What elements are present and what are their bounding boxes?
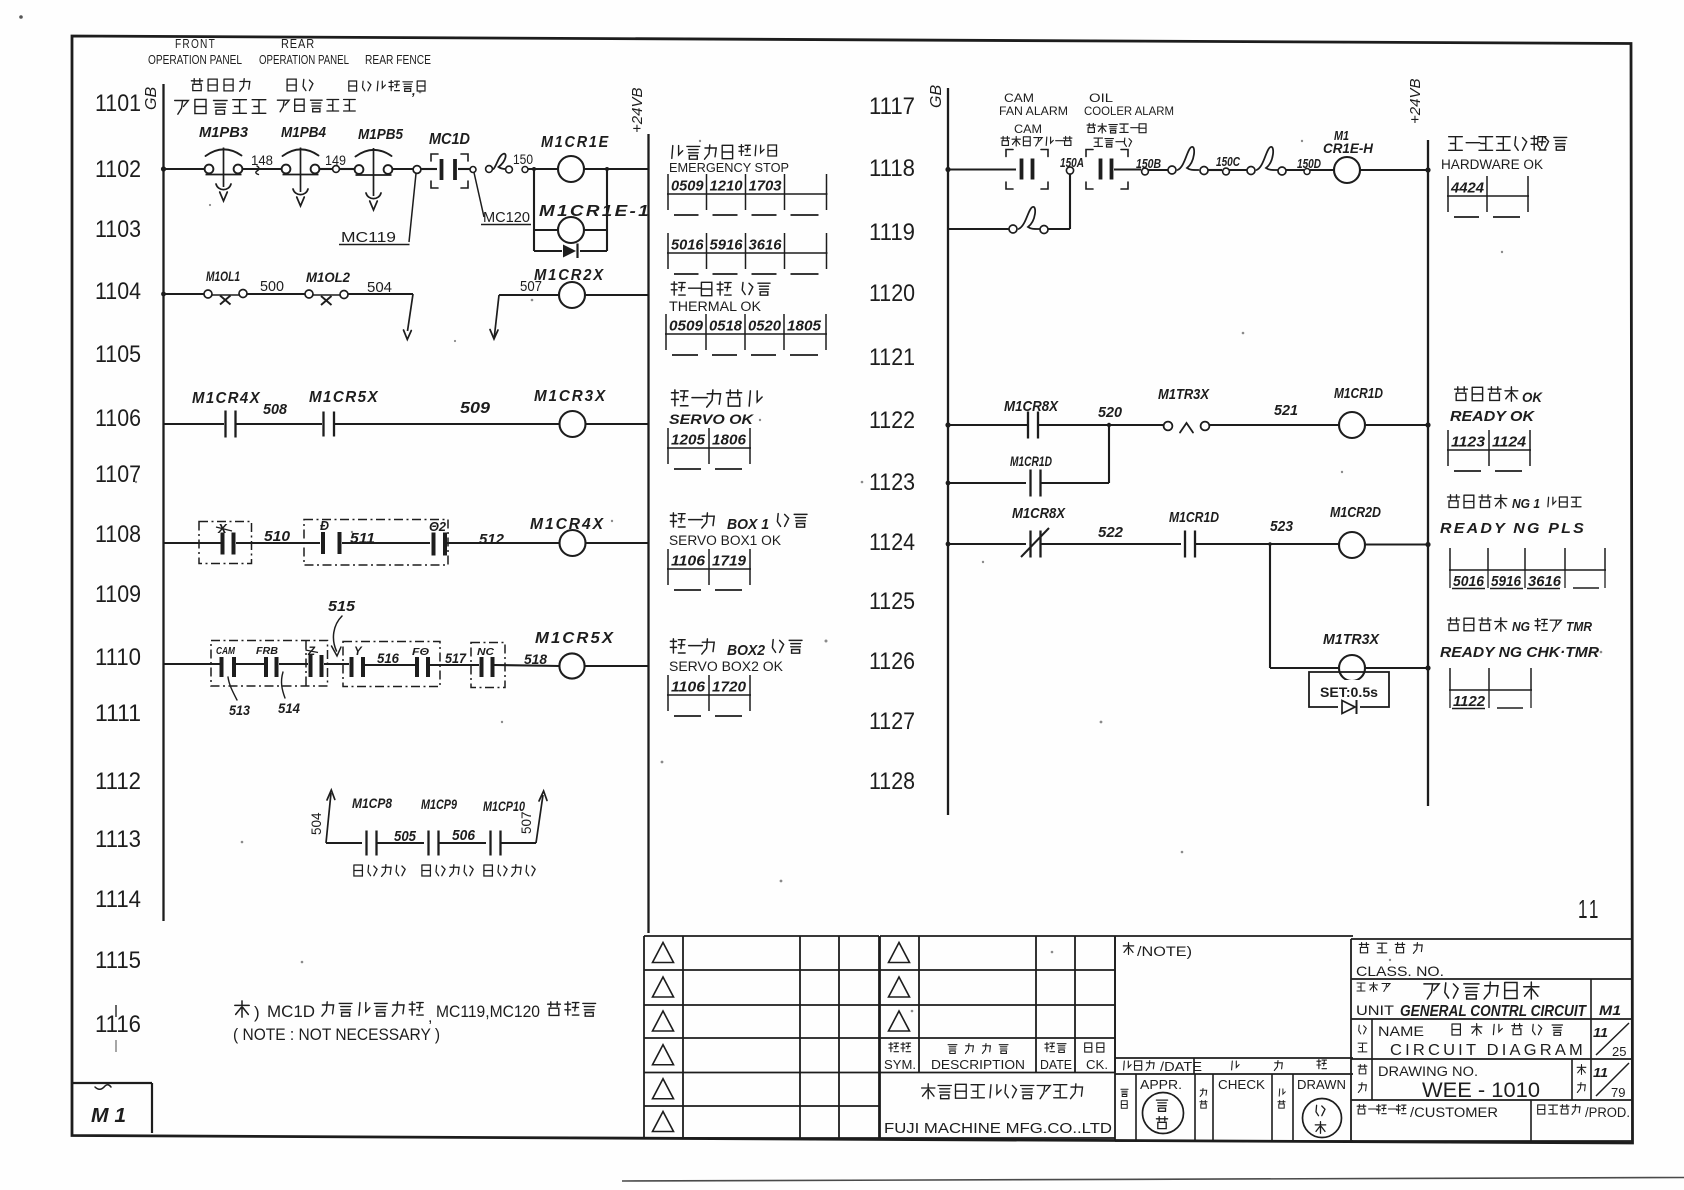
contact M1CP10 (489, 831, 491, 856)
wire rung1119 b (1048, 228, 1070, 230)
svg-text:BOX 1: BOX 1 (727, 516, 769, 533)
wire rung1110 a (164, 663, 221, 665)
name cell (1371, 1019, 1373, 1059)
note MC1D jumper JP (235, 1001, 249, 1017)
svg-text:0520: 0520 (748, 318, 782, 335)
node junction bus-1124 (946, 542, 951, 547)
wire rung1102 h (528, 168, 558, 170)
annotation hardware ok (1449, 137, 1463, 151)
company name JP (922, 1084, 935, 1099)
svg-text:CR1E-H: CR1E-H (1323, 141, 1373, 156)
contact M1CR8X NC (1029, 531, 1031, 558)
diode flyback loop (533, 230, 535, 251)
svg-text:,: , (428, 1009, 432, 1026)
diode timer (1338, 700, 1360, 714)
svg-text:1112: 1112 (95, 768, 141, 795)
servo box B enclosure (343, 642, 440, 687)
svg-text:M1CR1E-1: M1CR1E-1 (539, 203, 651, 220)
svg-text:1125: 1125 (869, 588, 915, 615)
svg-text:1115: 1115 (95, 947, 141, 974)
svg-text:/CUSTOMER: /CUSTOMER (1410, 1105, 1498, 1120)
svg-text:FAN ALARM: FAN ALARM (999, 104, 1068, 118)
svg-text:M1CR1D: M1CR1D (1010, 453, 1052, 469)
svg-text:150B: 150B (1136, 157, 1161, 171)
svg-text:1107: 1107 (95, 461, 141, 488)
svg-text:M1CR4X: M1CR4X (530, 516, 605, 533)
wire rung1118 g (1310, 169, 1334, 171)
svg-text:1123: 1123 (1451, 434, 1486, 451)
svg-text:1719: 1719 (712, 553, 747, 570)
wire rung1104 a (164, 293, 205, 295)
svg-text:509: 509 (460, 400, 490, 417)
wire rung1102 b (243, 168, 282, 170)
wire rung1119 (948, 228, 1009, 230)
svg-text:MC119: MC119 (341, 230, 396, 246)
svg-text:150C: 150C (1216, 155, 1241, 169)
svg-text:506: 506 (452, 828, 476, 844)
coil M1CR2X (559, 282, 585, 308)
coil M1CR1E-1 (558, 217, 584, 243)
svg-text:OPERATION PANEL: OPERATION PANEL (259, 53, 349, 67)
annotation ready ng chk tmr (1448, 618, 1460, 631)
wire rung1122 d (1365, 424, 1428, 426)
svg-text:1103: 1103 (95, 216, 141, 243)
svg-text:,: , (411, 83, 416, 98)
wire rung1123 b (1041, 482, 1110, 484)
svg-text:EMERGENCY STOP: EMERGENCY STOP (669, 160, 789, 175)
node MC120 terminal (470, 167, 476, 173)
svg-text:THERMAL OK: THERMAL OK (669, 299, 761, 314)
contact CAM FAN ALARM (1020, 159, 1024, 180)
svg-text:M1PB4: M1PB4 (281, 124, 327, 141)
coil M1CR5X (559, 653, 584, 678)
svg-text:Đ: Đ (320, 519, 329, 533)
zone label M1 (72, 1082, 152, 1084)
svg-text:1119: 1119 (869, 219, 915, 246)
svg-text:/DATE: /DATE (1160, 1060, 1202, 1074)
svg-text:1123: 1123 (869, 469, 915, 496)
svg-text:OIL: OIL (1089, 91, 1113, 105)
svg-text:520: 520 (1098, 404, 1123, 421)
svg-text:M1CR4X: M1CR4X (192, 390, 261, 407)
label aux contact JP 2 (422, 865, 431, 876)
label aux contact JP 3 (484, 865, 493, 876)
wire rung1126 b (1365, 667, 1428, 669)
svg-text:M1OL2: M1OL2 (306, 269, 350, 285)
coil M1CR2D (1339, 532, 1365, 558)
revision header CK (1085, 1043, 1092, 1052)
svg-text:M1CR1E: M1CR1E (541, 134, 610, 151)
svg-text:3616: 3616 (749, 237, 783, 254)
svg-text:1126: 1126 (869, 648, 915, 675)
net +24VB left bus (647, 134, 649, 933)
svg-text:1113: 1113 (95, 826, 141, 853)
svg-text:1116: 1116 (95, 1011, 141, 1038)
svg-text:0509: 0509 (669, 318, 704, 335)
svg-text:1703: 1703 (749, 178, 783, 195)
wire rung1118 b (1114, 168, 1141, 170)
svg-text:REAR: REAR (281, 37, 315, 51)
coil M1CR4X (560, 530, 586, 556)
svg-text:0518: 0518 (709, 318, 743, 335)
wire rung1113 b (377, 842, 425, 844)
wire rung1102 f (421, 168, 437, 170)
contact M1CR1D aux (1029, 470, 1031, 497)
svg-text:1121: 1121 (869, 344, 915, 371)
wire rung1104 d (499, 294, 559, 296)
wire rung1102 g (458, 168, 470, 170)
coil M1 CR1E-H (1334, 157, 1360, 183)
svg-text:M1CR5X: M1CR5X (535, 630, 615, 647)
svg-text:M1PB3: M1PB3 (199, 124, 249, 141)
wire rung1106 b (236, 423, 323, 425)
svg-text:MC120: MC120 (483, 210, 530, 226)
svg-text:HARDWARE OK: HARDWARE OK (1441, 157, 1543, 172)
wire rung1102 i (584, 168, 649, 170)
svg-text:5016: 5016 (671, 237, 704, 254)
wire rung1124 d (1365, 543, 1428, 545)
svg-text:CIRCUIT DIAGRAM: CIRCUIT DIAGRAM (1390, 1042, 1586, 1059)
svg-text:): ) (254, 1003, 260, 1022)
wire branch 1124-1126 (1269, 544, 1271, 668)
svg-text:UNIT: UNIT (1356, 1003, 1394, 1018)
servo box A enclosure (211, 641, 328, 687)
svg-text:1124: 1124 (869, 529, 915, 556)
svg-text:518: 518 (524, 651, 547, 667)
svg-text:1106: 1106 (671, 553, 706, 570)
svg-text:Θ2: Θ2 (429, 520, 446, 534)
label aux contact JP 1 (354, 865, 363, 876)
note cell (1115, 935, 1353, 937)
svg-text:OK: OK (1522, 389, 1543, 405)
svg-text:4424: 4424 (1450, 180, 1485, 197)
node MC119 terminal (413, 166, 421, 174)
svg-text:508: 508 (263, 401, 288, 418)
wire rung1110 c (365, 664, 415, 666)
unit name cell (1357, 983, 1365, 991)
wire rung1104 e (585, 294, 649, 296)
svg-text:CAM: CAM (216, 645, 235, 657)
svg-text:BOX2: BOX2 (727, 642, 766, 659)
svg-text:M1CR1D: M1CR1D (1334, 385, 1383, 402)
wire rung1103 (534, 229, 558, 231)
svg-text:1108: 1108 (95, 521, 141, 548)
net GB right bus (947, 88, 949, 815)
wire rung1104 b (247, 293, 305, 295)
wire rung1108 e (586, 542, 649, 544)
svg-text:+24VB: +24VB (1407, 79, 1424, 124)
svg-text:5916: 5916 (710, 237, 744, 254)
net +24VB right bus (1427, 140, 1429, 806)
wire rung1113 c (439, 842, 487, 844)
node junction bus-1104 (161, 292, 166, 297)
wire rung1118 a (948, 168, 1016, 170)
wire rung1108 a (164, 542, 222, 544)
svg-text:507: 507 (519, 811, 534, 834)
revision header SYM (889, 1043, 899, 1052)
wire continuation arrow 504 up (326, 793, 331, 843)
svg-text:M1PB5: M1PB5 (358, 126, 404, 143)
svg-text:1114: 1114 (95, 886, 141, 913)
revision header DATE (1045, 1043, 1055, 1052)
wire rung1122 a (948, 424, 1027, 426)
coil M1CR1D (1339, 412, 1365, 438)
svg-text:SET:0.5s: SET:0.5s (1320, 685, 1378, 700)
svg-text:1101: 1101 (95, 90, 141, 117)
svg-text:SERVO OK: SERVO OK (669, 412, 754, 427)
svg-text:516: 516 (377, 651, 399, 666)
servo box2 enclosure (304, 520, 448, 566)
drawing no cell (1371, 1059, 1373, 1100)
svg-text:FΘ: FΘ (412, 646, 429, 658)
wire rung1118 h (1360, 169, 1428, 171)
contact OIL COOLER ALARM (1099, 159, 1103, 180)
svg-text:GB: GB (928, 85, 945, 108)
svg-text:504: 504 (309, 812, 324, 835)
svg-text:M1TR3X: M1TR3X (1158, 386, 1210, 403)
svg-text:NG: NG (1512, 619, 1530, 634)
approval cells (1135, 1074, 1137, 1141)
wire rung1122 c (1210, 424, 1340, 426)
node junction bus-1123 (946, 481, 951, 486)
contact plug pair 2 (1247, 167, 1255, 175)
svg-text:1117: 1117 (869, 93, 915, 120)
svg-text:M1CP8: M1CP8 (352, 795, 392, 811)
revision table right (880, 935, 1115, 937)
svg-text:5916: 5916 (1491, 573, 1522, 590)
svg-text:TMR: TMR (1566, 619, 1593, 634)
svg-text:SYM.: SYM. (884, 1058, 916, 1072)
svg-text:M 1: M 1 (91, 1105, 126, 1127)
revision table left (643, 936, 645, 1138)
svg-text:M1CR8X: M1CR8X (1004, 398, 1059, 415)
svg-text:3616: 3616 (1528, 573, 1562, 590)
servo box1 enclosure (199, 522, 252, 564)
svg-text:MC1D: MC1D (429, 131, 470, 148)
annotation servo box2 ok (670, 639, 685, 653)
wire rung1118 f (1286, 169, 1304, 171)
contact M1CR5X (322, 412, 324, 437)
contact theta2 servo box2 (432, 533, 436, 556)
svg-text:READY NG PLS: READY NG PLS (1440, 521, 1586, 537)
timer SET box (1309, 672, 1389, 707)
servo box C enclosure (471, 643, 505, 688)
pushbutton M1PB5 (356, 150, 392, 157)
wire continuation arrow 507 up (536, 795, 543, 843)
svg-text:M1: M1 (1599, 1002, 1621, 1018)
wire rung1124 b (1041, 543, 1182, 545)
wire rung1124 a (948, 543, 1026, 545)
svg-text:DRAWN: DRAWN (1297, 1078, 1346, 1092)
annotation ready ok (1455, 387, 1468, 401)
svg-text:1122: 1122 (1453, 693, 1486, 710)
svg-text:GB: GB (143, 87, 160, 110)
svg-text:DRAWING NO.: DRAWING NO. (1378, 1064, 1478, 1079)
annotation 1103 refs (667, 233, 669, 269)
svg-text:513: 513 (229, 702, 250, 718)
node junction bus-1102 (161, 166, 166, 171)
svg-text:1205: 1205 (671, 432, 706, 449)
svg-text:FRONT: FRONT (175, 37, 216, 51)
svg-text:CK.: CK. (1086, 1058, 1108, 1072)
svg-text:79: 79 (1611, 1085, 1625, 1100)
wire rung1126 a (1270, 667, 1339, 669)
svg-text:5016: 5016 (1453, 573, 1485, 590)
svg-text:M1OL1: M1OL1 (206, 268, 240, 284)
svg-text:OPERATION PANEL: OPERATION PANEL (148, 53, 242, 67)
svg-text:517: 517 (445, 651, 467, 666)
svg-text:1128: 1128 (869, 768, 915, 795)
wire rung1118 d (1208, 169, 1222, 171)
wire rung1108 c (342, 542, 430, 544)
wire rung1113 a (326, 842, 362, 844)
contact theta servo box2 (321, 532, 325, 554)
label rear fence JP (349, 81, 357, 91)
svg-text:WEE - 1010: WEE - 1010 (1422, 1079, 1540, 1102)
svg-text:+24VB: +24VB (629, 88, 646, 133)
svg-text:COOLER ALARM: COOLER ALARM (1084, 104, 1174, 118)
contact plug pair 1 (1168, 166, 1176, 174)
svg-text:522: 522 (1098, 524, 1124, 541)
label front panel JP (191, 79, 202, 91)
svg-text:SERVO BOX1 OK: SERVO BOX1 OK (669, 533, 781, 548)
wire rung1123 a (948, 482, 1026, 484)
svg-text:M1CR5X: M1CR5X (309, 389, 379, 406)
contact MC1D (440, 159, 444, 180)
wire rung1106 a (164, 423, 225, 425)
node junction 1122-1123 (1107, 423, 1111, 427)
svg-text:DATE: DATE (1040, 1058, 1072, 1072)
contact M1CR8X (1027, 412, 1029, 439)
svg-text:DESCRIPTION: DESCRIPTION (931, 1058, 1025, 1072)
svg-text:515: 515 (328, 598, 356, 615)
contact M1OL2 thermal (305, 290, 313, 298)
svg-text:1105: 1105 (95, 341, 141, 368)
svg-text:1109: 1109 (95, 581, 141, 608)
svg-text:11: 11 (1593, 1025, 1608, 1040)
svg-text:SERVO BOX2 OK: SERVO BOX2 OK (669, 659, 783, 674)
node junction bus-1122 (945, 422, 950, 427)
svg-text:1210: 1210 (710, 178, 744, 195)
svg-text:512: 512 (479, 531, 505, 548)
svg-text:NC: NC (477, 646, 494, 658)
wire rung1110 e (585, 665, 649, 667)
svg-text:511: 511 (350, 530, 375, 547)
wire branch 1103 up (606, 169, 608, 230)
wire rung1102 d (340, 168, 356, 170)
revision header DESCRIPTION (948, 1045, 957, 1054)
contact M1CR1D 2 (1184, 531, 1186, 558)
wire rung1102 a (164, 168, 207, 170)
svg-text:11: 11 (1593, 1065, 1608, 1080)
net GB left bus (162, 84, 164, 921)
wire rung1110 b (236, 663, 264, 665)
wire rung1113 d (501, 842, 537, 844)
contact plug 150 (486, 166, 493, 173)
contact plug 1119 (1009, 225, 1017, 233)
svg-text:NAME: NAME (1378, 1024, 1424, 1039)
wire continuation arrow 507 (490, 330, 498, 340)
pushbutton M1PB4 (283, 149, 319, 156)
wire rung1108 b (236, 542, 320, 544)
svg-text:148: 148 (251, 153, 273, 168)
contact X servo box1 (221, 533, 225, 555)
stamp DRAWN hanko (1303, 1099, 1342, 1138)
wire rung1106 c (334, 423, 559, 425)
wire rung1110 d (495, 665, 560, 666)
svg-text:FUJI MACHINE MFG.CO..LTD: FUJI MACHINE MFG.CO..LTD (884, 1120, 1112, 1137)
annotation servo ok (672, 390, 689, 406)
coil M1TR3X timer (1339, 655, 1365, 681)
wire rung1108 d (447, 542, 559, 544)
wire rung1102 c (319, 168, 332, 170)
svg-text:CAM: CAM (1014, 124, 1042, 136)
svg-text:M1CR2D: M1CR2D (1330, 504, 1381, 521)
svg-text:1806: 1806 (712, 432, 747, 449)
wire rung1122 b (1038, 424, 1163, 426)
contact M1TR3X timer NC (1164, 422, 1173, 431)
svg-text:( NOTE : NOT NECESSARY ): ( NOTE : NOT NECESSARY ) (233, 1025, 440, 1044)
svg-text:/NOTE): /NOTE) (1137, 944, 1192, 959)
svg-text:521: 521 (1274, 402, 1298, 419)
date row (1115, 1057, 1353, 1059)
wire rung1104 c (348, 293, 413, 295)
wire continuation arrow 504 (408, 294, 414, 331)
title info block (1350, 939, 1352, 1141)
svg-text:READY OK: READY OK (1450, 409, 1536, 425)
annotation ready ng pls (1448, 495, 1460, 508)
svg-text:GENERAL CONTRL CIRCUIT: GENERAL CONTRL CIRCUIT (1400, 1003, 1587, 1020)
svg-text:MC1D: MC1D (267, 1002, 315, 1021)
svg-text:1124: 1124 (1492, 434, 1527, 451)
svg-text:READY NG CHK·TMR: READY NG CHK·TMR (1440, 645, 1600, 661)
wire rung1124 c (1195, 543, 1339, 545)
svg-text:0509: 0509 (671, 178, 704, 195)
svg-text:CLASS. NO.: CLASS. NO. (1356, 963, 1444, 979)
svg-text:1118: 1118 (869, 155, 915, 182)
svg-text:150: 150 (513, 152, 533, 167)
class no cell (1359, 943, 1369, 953)
svg-text:1122: 1122 (869, 407, 915, 434)
svg-text:1106: 1106 (671, 679, 706, 696)
svg-text:1111: 1111 (95, 700, 141, 727)
node junction bus-1118 (945, 167, 950, 172)
svg-text:514: 514 (278, 700, 300, 716)
svg-text:FRB: FRB (256, 645, 278, 657)
svg-text:M1CR8X: M1CR8X (1012, 505, 1066, 522)
svg-text:1104: 1104 (95, 278, 141, 305)
svg-text:CAM: CAM (1004, 91, 1034, 105)
svg-text:1106: 1106 (95, 405, 141, 432)
wire branch 1103 down (532, 167, 536, 171)
annotation emergency stop (672, 146, 683, 159)
svg-text:REAR FENCE: REAR FENCE (365, 53, 431, 67)
svg-text:500: 500 (260, 278, 284, 295)
customer cell (1357, 1105, 1366, 1114)
svg-text:11: 11 (1578, 894, 1601, 924)
svg-text:NG 1: NG 1 (1512, 496, 1540, 511)
svg-text:1102: 1102 (95, 156, 141, 183)
wire rung1102 e (392, 168, 414, 170)
svg-text:1127: 1127 (869, 708, 915, 735)
wire branch 150A down (1069, 174, 1071, 229)
svg-text:APPR.: APPR. (1140, 1078, 1182, 1092)
annotation servo box1 ok (670, 513, 685, 527)
svg-text:M1CR1D: M1CR1D (1169, 509, 1219, 526)
svg-text:523: 523 (1270, 518, 1294, 535)
svg-text:MC119,MC120: MC119,MC120 (436, 1002, 540, 1021)
wire rung1106 d (586, 423, 649, 425)
